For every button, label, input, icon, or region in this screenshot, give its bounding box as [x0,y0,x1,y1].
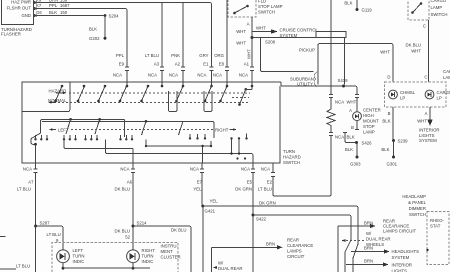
svg-text:S287: S287 [40,221,51,226]
svg-text:G301: G301 [387,162,398,167]
svg-text:LEFT: LEFT [58,128,69,133]
svg-text:S419: S419 [338,78,349,83]
svg-text:BLK: BLK [381,147,389,152]
svg-text:YEL: YEL [193,187,202,192]
svg-text:S422: S422 [256,217,267,222]
svg-text:1687: 1687 [60,3,70,8]
svg-text:INTERIOR: INTERIOR [419,127,440,132]
svg-text:C: C [424,75,427,80]
svg-text:S208: S208 [265,40,276,45]
svg-text:A7: A7 [28,180,34,185]
svg-text:INDIC: INDIC [142,259,154,264]
svg-text:LAMP: LAMP [443,75,450,80]
svg-text:CARGO: CARGO [437,90,450,95]
svg-text:G421: G421 [205,209,216,214]
svg-text:S214: S214 [137,221,148,226]
svg-text:NCA: NCA [113,73,122,78]
svg-text:LP: LP [437,95,442,100]
svg-text:A: A [349,108,352,113]
svg-text:DK GRN: DK GRN [259,201,276,206]
svg-text:A: A [425,111,428,116]
svg-text:SWITCH: SWITCH [409,212,426,217]
svg-text:NCA: NCA [169,73,178,78]
svg-text:150: 150 [60,10,68,15]
svg-text:FLSHR OUT: FLSHR OUT [7,6,32,11]
svg-text:D: D [387,75,390,80]
svg-text:YEL: YEL [210,199,219,204]
svg-text:BLK: BLK [89,27,97,32]
svg-text:E1: E1 [203,62,209,67]
svg-text:DUAL REAR: DUAL REAR [218,266,242,271]
svg-text:S239: S239 [398,139,409,144]
svg-text:WHT: WHT [380,50,390,55]
svg-text:BRN: BRN [364,259,373,264]
svg-text:INDIC: INDIC [73,259,85,264]
svg-text:GRY: GRY [199,53,208,58]
svg-text:NCA: NCA [261,167,270,172]
svg-text:LEFT: LEFT [73,248,84,253]
svg-text:BLK: BLK [345,147,353,152]
svg-text:PNK: PNK [171,53,180,58]
svg-text:PPL: PPL [116,53,125,58]
svg-text:NCA: NCA [335,99,344,104]
svg-text:CLEARANCE: CLEARANCE [287,243,313,248]
svg-text:WHT: WHT [417,119,427,124]
svg-text:CRUISE CONTROL: CRUISE CONTROL [280,27,319,32]
svg-text:LT BLU: LT BLU [47,232,61,237]
svg-text:A1: A1 [244,62,250,67]
svg-text:DK BLU: DK BLU [114,187,130,192]
svg-text:TURN: TURN [73,254,85,259]
svg-text:TURN: TURN [283,149,295,154]
svg-text:HEADLAMP: HEADLAMP [402,194,426,199]
svg-text:BLK: BLK [382,119,390,124]
svg-text:NCA: NCA [241,167,250,172]
svg-text:E5: E5 [247,180,253,185]
svg-text:REAR: REAR [287,238,299,243]
svg-text:W/: W/ [218,261,224,266]
svg-text:INSTRU-: INSTRU- [161,244,179,249]
svg-text:LIGHTS: LIGHTS [392,268,408,272]
svg-text:DK BLU: DK BLU [171,228,187,233]
svg-text:NCA: NCA [335,135,344,140]
svg-text:WHT: WHT [411,49,421,54]
svg-text:RIGHT: RIGHT [142,248,156,253]
svg-text:GND: GND [21,13,31,18]
svg-text:CARGO: CARGO [431,0,447,3]
svg-text:LAMP: LAMP [431,5,443,10]
svg-text:E9: E9 [119,62,125,67]
svg-text:NCA: NCA [190,167,199,172]
svg-text:SWITCH: SWITCH [258,9,275,14]
svg-text:A: A [247,22,250,27]
svg-text:G202: G202 [89,36,100,41]
svg-text:STOP LAMP: STOP LAMP [258,4,283,9]
svg-text:WHT: WHT [256,26,266,31]
svg-text:CENTER: CENTER [363,108,381,113]
svg-text:BLK: BLK [347,135,355,140]
svg-text:HAZ PWR: HAZ PWR [11,0,31,4]
svg-text:E2: E2 [267,180,273,185]
svg-text:52: 52 [125,235,130,240]
svg-text:SWITCH: SWITCH [283,160,300,165]
svg-text:NCA: NCA [120,167,129,172]
svg-text:W/: W/ [366,231,372,236]
svg-text:WHT: WHT [236,41,246,46]
svg-text:LT BLU: LT BLU [16,264,30,269]
svg-text:ORG: ORG [214,53,224,58]
svg-text:DK BLU: DK BLU [114,229,130,234]
svg-text:BLK: BLK [344,1,352,6]
svg-text:NCA: NCA [239,73,248,78]
svg-text:HAZARD: HAZARD [283,155,301,160]
svg-text:G119: G119 [362,8,373,13]
svg-text:LT BLU: LT BLU [145,53,159,58]
svg-text:FLASHER: FLASHER [1,31,21,36]
svg-text:B: B [388,111,391,116]
svg-text:WHT: WHT [347,99,357,104]
svg-text:BLK: BLK [49,10,57,15]
svg-text:A6: A6 [127,180,133,185]
svg-text:NCA: NCA [148,73,157,78]
svg-text:LT BLU: LT BLU [17,187,31,192]
svg-text:CARGO: CARGO [443,69,450,74]
svg-text:RHEO-: RHEO- [430,218,444,223]
svg-text:CHMSL: CHMSL [400,90,416,95]
svg-text:C: C [423,23,426,28]
svg-text:G303: G303 [350,162,361,167]
svg-text:DUAL REAR: DUAL REAR [366,237,390,242]
svg-text:INTERIOR: INTERIOR [392,262,413,267]
svg-text:MENT: MENT [161,249,174,254]
svg-text:A2: A2 [175,62,181,67]
svg-text:HIGH: HIGH [363,113,374,118]
svg-text:PICKUP: PICKUP [299,48,315,53]
svg-text:NCA: NCA [23,167,32,172]
svg-text:B: B [351,125,354,130]
svg-text:LP: LP [400,95,405,100]
svg-text:DK BLU: DK BLU [405,43,421,48]
svg-text:SWITCH: SWITCH [431,12,448,17]
svg-text:DIMMER: DIMMER [409,206,426,211]
svg-text:S204: S204 [109,13,120,18]
svg-text:LAMPS CIRCUIT: LAMPS CIRCUIT [383,228,417,233]
svg-text:BRN: BRN [364,221,373,226]
svg-text:S426: S426 [362,141,373,146]
svg-text:& PANEL: & PANEL [408,200,426,205]
svg-text:BRN: BRN [364,246,373,251]
svg-text:WHT: WHT [236,29,246,34]
svg-text:LIGHTS: LIGHTS [419,133,435,138]
svg-text:A3: A3 [154,62,160,67]
svg-text:SYSTEM: SYSTEM [392,255,410,260]
svg-text:WHT: WHT [247,49,252,59]
svg-text:CIRCUIT: CIRCUIT [287,254,305,259]
svg-text:TURN: TURN [142,254,154,259]
svg-text:STOP: STOP [363,124,375,129]
svg-text:E7: E7 [197,180,203,185]
svg-text:G6: G6 [36,10,42,15]
svg-text:LAMP: LAMP [363,130,375,135]
svg-text:RIGHT: RIGHT [215,128,229,133]
svg-text:STAT: STAT [430,224,441,229]
svg-text:NCA: NCA [197,73,206,78]
svg-text:K7: K7 [36,3,42,8]
svg-text:LAMPS: LAMPS [287,249,302,254]
svg-text:PPL: PPL [49,3,58,8]
svg-text:E8: E8 [219,62,225,67]
svg-text:LT BLU: LT BLU [258,187,272,192]
svg-text:BRN: BRN [266,242,275,247]
svg-text:CLUSTER: CLUSTER [161,255,181,260]
svg-text:NCA: NCA [213,73,222,78]
svg-text:MOUNT: MOUNT [363,119,379,124]
svg-text:HEADLIGHTS: HEADLIGHTS [392,249,420,254]
svg-text:DK GRN: DK GRN [235,187,252,192]
svg-text:SYSTEM: SYSTEM [419,138,437,143]
